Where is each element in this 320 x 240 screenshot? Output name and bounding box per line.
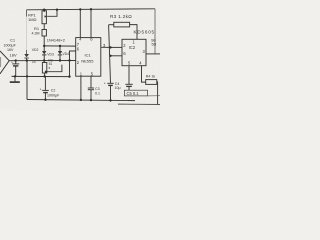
svg-text:VD2: VD2 xyxy=(32,48,39,52)
svg-text:1000μF: 1000μF xyxy=(47,94,60,98)
svg-text:1000μF: 1000μF xyxy=(4,43,17,47)
svg-text:R1: R1 xyxy=(34,26,40,31)
svg-text:4.3M: 4.3M xyxy=(32,32,40,36)
svg-text:+: + xyxy=(40,88,42,92)
svg-text:VD3: VD3 xyxy=(47,52,54,56)
svg-text:16V: 16V xyxy=(7,48,14,52)
svg-text:18V: 18V xyxy=(10,53,17,58)
svg-text:R4 1k: R4 1k xyxy=(146,75,156,79)
svg-text:+: + xyxy=(11,61,13,65)
svg-text:C2: C2 xyxy=(51,89,56,93)
svg-text:10μ: 10μ xyxy=(115,86,121,90)
svg-text:KD5605: KD5605 xyxy=(134,30,155,35)
svg-text:IC2: IC2 xyxy=(129,45,136,50)
svg-text:R3 1.2kΩ: R3 1.2kΩ xyxy=(110,14,132,19)
svg-text:IC1: IC1 xyxy=(85,52,92,57)
svg-text:1MΩ: 1MΩ xyxy=(28,17,37,22)
svg-text:NE555: NE555 xyxy=(81,58,94,63)
svg-text:VD4: VD4 xyxy=(63,52,70,56)
svg-text:0.1: 0.1 xyxy=(95,91,100,95)
svg-text:C1: C1 xyxy=(10,37,16,42)
svg-text:5Ω: 5Ω xyxy=(152,42,157,46)
svg-text:+: + xyxy=(104,81,106,85)
svg-text:C5 0.1: C5 0.1 xyxy=(127,91,140,96)
svg-text:1N4148×2: 1N4148×2 xyxy=(47,38,65,43)
